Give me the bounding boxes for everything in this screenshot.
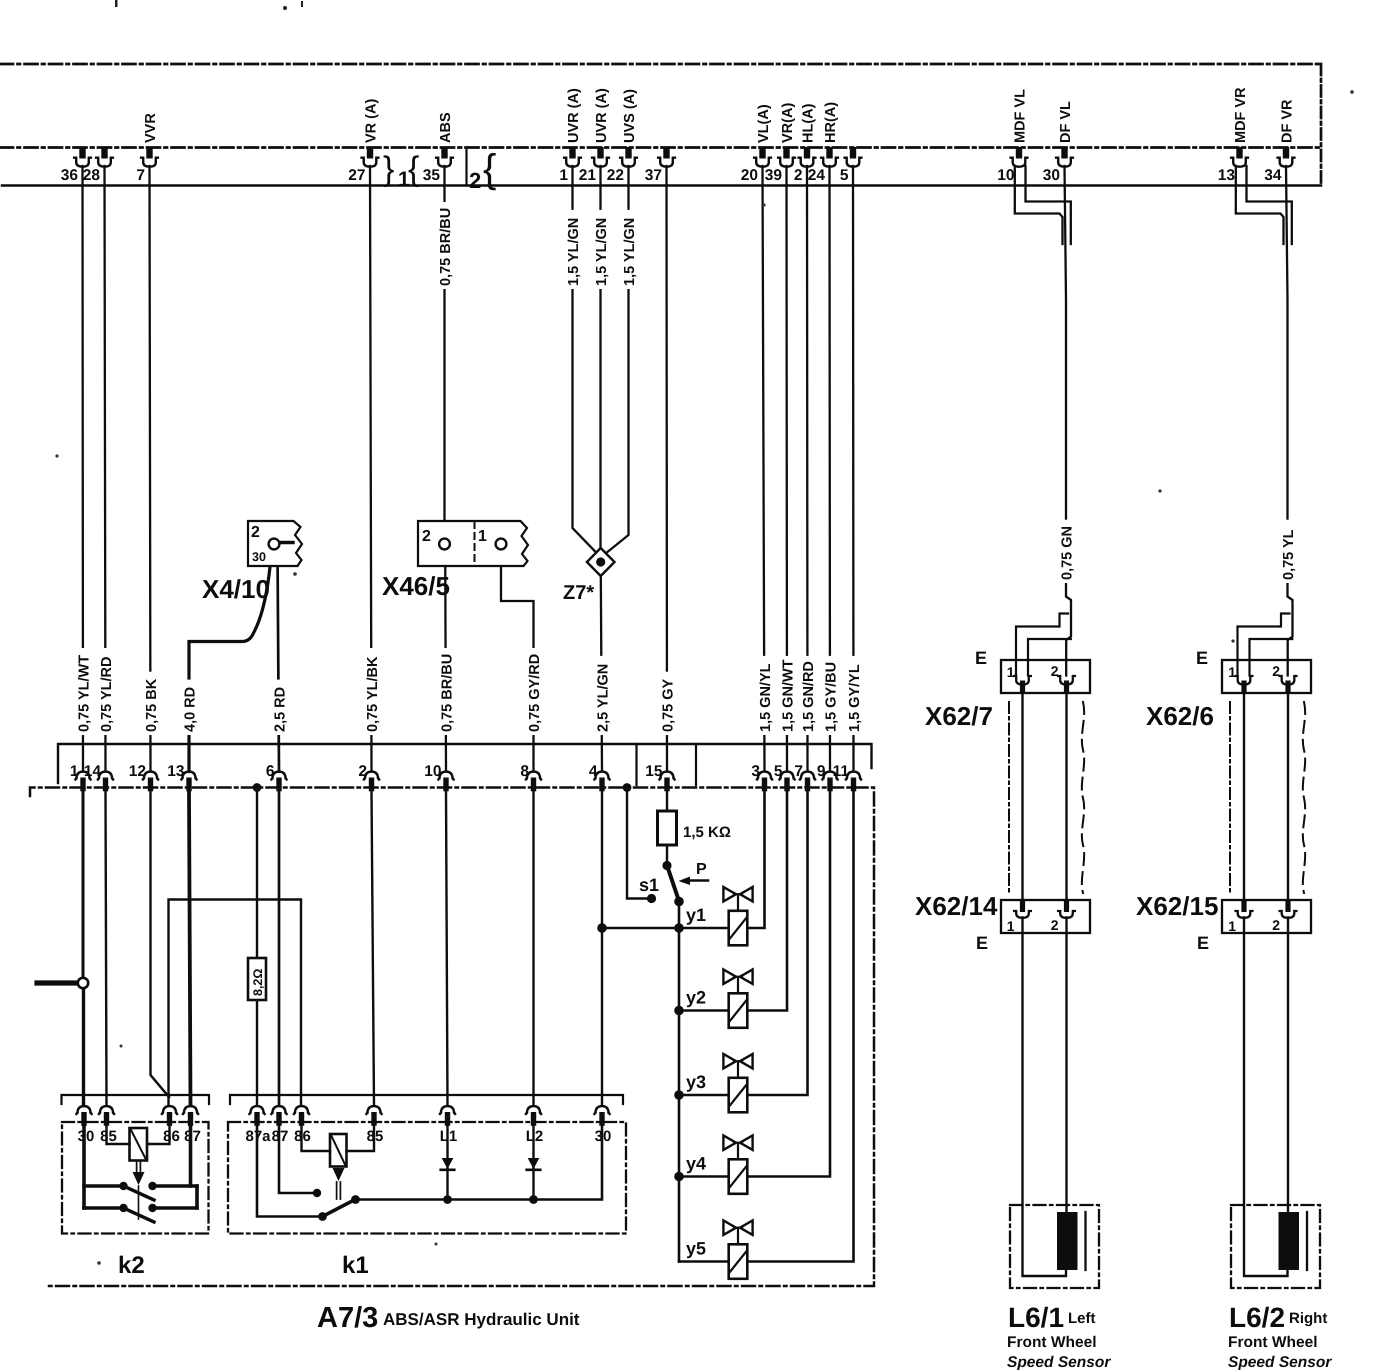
terminal label DF VR xyxy=(1279,99,1295,143)
k2 contact upper right dot xyxy=(148,1182,156,1190)
svg-text:35: 35 xyxy=(423,167,441,184)
k1 pin 87a xyxy=(245,1106,271,1145)
k1 blade pivot dot xyxy=(351,1195,360,1204)
terminal label UVR (A) xyxy=(594,88,610,143)
terminal label UVS (A) xyxy=(622,89,638,143)
svg-text:5: 5 xyxy=(840,167,849,184)
wire X4/10 pin30 to pin6 2,5 RD xyxy=(278,550,280,772)
pin 35 (unit A connector) xyxy=(423,147,453,184)
svg-text:UVR (A): UVR (A) xyxy=(566,88,582,143)
k1 plunger with arrow xyxy=(333,1168,345,1199)
k1 wire 87a xyxy=(257,1126,318,1217)
k2 contact lower blade xyxy=(124,1208,155,1222)
wire label 1,5 YL/GN (upper) xyxy=(565,210,582,289)
svg-text:Front Wheel: Front Wheel xyxy=(1228,1334,1318,1351)
cable sheath dash-dot right xyxy=(1229,702,1231,893)
wire y3 row left xyxy=(679,1094,729,1097)
svg-text:7: 7 xyxy=(136,167,145,184)
wire pin15 to 1,5k resistor xyxy=(666,792,668,812)
svg-text:10: 10 xyxy=(424,763,441,780)
k2 coil wire 85 xyxy=(107,1126,130,1144)
wire y4 row left xyxy=(679,1175,729,1178)
pin 3 (A7/3) xyxy=(751,763,772,791)
svg-text:2: 2 xyxy=(469,168,481,193)
pin 39 (unit A connector) xyxy=(765,147,795,184)
wire label 0,75 BR/BU (upper) xyxy=(437,202,454,289)
X62/6 shield stub wires into pin 1 xyxy=(1238,614,1293,676)
junction dot valve row y4 xyxy=(674,1172,684,1182)
svg-text:s1: s1 xyxy=(639,875,659,895)
k2 contact lower right bar xyxy=(153,1206,198,1210)
switch s1 junction dot xyxy=(662,861,671,870)
pin 34 (unit A connector) xyxy=(1264,147,1294,184)
wire s1 feed xyxy=(627,792,648,899)
scan speck xyxy=(283,6,287,10)
control unit A connector row line (dash-dot) xyxy=(0,146,1321,149)
wire pin4 to k1:30 xyxy=(601,792,603,1106)
svg-text:2: 2 xyxy=(1051,917,1059,933)
k1 pin 86 xyxy=(294,1106,311,1145)
svg-text:{: { xyxy=(408,150,419,188)
junction dot valve row y1 xyxy=(674,923,684,933)
svg-text:y5: y5 xyxy=(686,1239,706,1259)
cable sheath wavy left xyxy=(1082,702,1084,893)
k1 coil xyxy=(330,1134,347,1167)
k1 L1 wire xyxy=(446,1126,448,1200)
svg-text:10: 10 xyxy=(997,167,1014,184)
svg-text:1: 1 xyxy=(1007,664,1015,680)
X62/14 pin 1 xyxy=(1007,900,1031,935)
scan speck xyxy=(55,454,58,457)
svg-text:4,0 RD: 4,0 RD xyxy=(182,687,198,732)
valve rail vertical xyxy=(678,928,681,1262)
terminal label VL(A) xyxy=(756,104,772,143)
svg-text:1,5 YL/GN: 1,5 YL/GN xyxy=(622,218,638,286)
k2 contact upper left bar xyxy=(84,1184,122,1188)
terminal label VR (A) xyxy=(363,99,379,143)
wire y1 row left xyxy=(602,927,729,930)
scan speck xyxy=(762,203,765,206)
pin 5 (unit A connector) xyxy=(840,147,862,184)
control unit A right edge (dash-dot) xyxy=(1320,64,1323,186)
wire y5 row left xyxy=(679,1260,729,1263)
svg-text:}: } xyxy=(383,150,394,188)
wire X4/10 pin30 to pin13 4,0 RD (curved) xyxy=(189,550,272,772)
svg-text:86: 86 xyxy=(163,1128,180,1145)
wire label 4,0 RD xyxy=(182,680,199,735)
k2 contact lower left bar xyxy=(84,1206,122,1210)
pin 2 (unit A connector) xyxy=(794,147,816,184)
switch s1 blade lower dot xyxy=(674,897,684,907)
pin 2 (A7/3) xyxy=(358,763,379,791)
terminal label ABS xyxy=(438,112,454,143)
wire label 0,75 GY/RD xyxy=(526,648,543,735)
svg-text:E: E xyxy=(975,648,987,668)
solenoid valve y1 xyxy=(723,887,752,945)
svg-text:12: 12 xyxy=(129,763,146,780)
junction dot valve row y2 xyxy=(674,1006,684,1016)
junction on A7/3 edge for s1 branch xyxy=(623,783,632,792)
svg-text:ABS/ASR Hydraulic Unit: ABS/ASR Hydraulic Unit xyxy=(383,1310,580,1329)
k2 pin 86 xyxy=(162,1106,180,1145)
k2 coil wire 86 xyxy=(147,1126,170,1144)
svg-text:0,75 YL/WT: 0,75 YL/WT xyxy=(76,655,92,732)
wire label 1,5 GY/BU xyxy=(823,656,840,735)
pin 6 (A7/3) xyxy=(266,763,287,791)
pin 22 (unit A connector) xyxy=(607,147,637,184)
cable sheath dash-dot left xyxy=(1008,702,1010,893)
pin 9 (A7/3) xyxy=(817,763,838,791)
pin 36 (unit A connector) xyxy=(61,147,91,184)
X62/15 pin 1 xyxy=(1228,900,1252,935)
svg-text:1: 1 xyxy=(70,763,79,780)
svg-text:E: E xyxy=(1197,933,1209,953)
svg-text:E: E xyxy=(1196,648,1208,668)
pin 20 (unit A connector) xyxy=(741,147,771,184)
svg-text:2,5 RD: 2,5 RD xyxy=(272,687,288,732)
svg-text:1,5 YL/GN: 1,5 YL/GN xyxy=(566,218,582,286)
connector X62/7 box xyxy=(1001,660,1090,693)
wire Z7 to pin4 2,5 YL/GN xyxy=(601,576,602,772)
sensor L6/1 pole line xyxy=(1084,1212,1086,1270)
svg-text:7: 7 xyxy=(794,763,803,780)
terminal label DF VL xyxy=(1058,101,1074,143)
svg-text:y2: y2 xyxy=(686,988,706,1008)
svg-text:X62/6: X62/6 xyxy=(1146,701,1214,731)
svg-text:39: 39 xyxy=(765,167,783,184)
svg-text:0,75 YL/BK: 0,75 YL/BK xyxy=(365,656,381,732)
switch s1 blade xyxy=(667,866,679,902)
pin 13 (unit A connector) xyxy=(1218,147,1248,184)
A7/3 unit box (dash-dot) xyxy=(30,788,874,1287)
svg-text:k1: k1 xyxy=(342,1252,369,1279)
scan speck xyxy=(1231,639,1234,642)
svg-text:UVS (A): UVS (A) xyxy=(622,89,638,143)
k1 L2 wire xyxy=(532,1126,534,1200)
pin 8 (A7/3) xyxy=(520,763,541,791)
wire label 0,75 YL xyxy=(1280,520,1297,583)
solder joint Z7 diamond xyxy=(587,548,615,576)
wire label 0,75 YL/WT xyxy=(76,648,93,735)
svg-text:28: 28 xyxy=(83,167,101,184)
svg-text:1,5 GN/RD: 1,5 GN/RD xyxy=(801,661,817,732)
svg-text:X62/15: X62/15 xyxy=(1136,891,1218,921)
wire pin8 to k1:L2 xyxy=(532,792,534,1106)
svg-text:0,75 YL/RD: 0,75 YL/RD xyxy=(99,657,115,733)
wire 8,2 ohm to k1:87a xyxy=(256,1000,258,1106)
svg-text:y3: y3 xyxy=(686,1072,706,1092)
k1 pin L1 xyxy=(440,1106,458,1145)
k1 rail dot L2 xyxy=(529,1195,538,1204)
svg-text:2: 2 xyxy=(251,524,260,541)
terminal label MDF VL xyxy=(1012,89,1028,143)
wire 1,5k resistor to s1 xyxy=(666,845,668,862)
scan speck xyxy=(1350,90,1354,94)
svg-text:Left: Left xyxy=(1068,1310,1096,1327)
svg-text:30: 30 xyxy=(78,1128,95,1145)
svg-text:22: 22 xyxy=(607,167,624,184)
k1 coil wire 86 xyxy=(302,1126,331,1151)
k2 heavy wire 30 xyxy=(82,1126,86,1208)
svg-text:1: 1 xyxy=(478,528,487,545)
svg-text:X4/10: X4/10 xyxy=(202,574,270,604)
terminal label VVR xyxy=(143,113,159,143)
X4/10 terminal stub xyxy=(280,541,293,544)
svg-text:DF VR: DF VR xyxy=(1279,99,1295,143)
svg-text:20: 20 xyxy=(741,167,758,184)
svg-text:A7/3: A7/3 xyxy=(317,1302,378,1334)
scan speck xyxy=(435,1243,438,1246)
k1 pin 30 xyxy=(594,1106,611,1145)
svg-text:87: 87 xyxy=(184,1128,201,1145)
wire label 0,75 BK xyxy=(143,672,160,735)
svg-text:2: 2 xyxy=(1272,663,1280,679)
terminal label VR(A) xyxy=(780,103,796,143)
X62/6 pin 1 xyxy=(1228,664,1252,693)
svg-text:15: 15 xyxy=(645,763,663,780)
k2 pin 85 xyxy=(99,1106,117,1145)
svg-text:E: E xyxy=(976,933,988,953)
X46/5 divider xyxy=(474,522,476,565)
sensor cable wires X62/6 to X62/15 xyxy=(1244,693,1288,900)
DF VR wire 0,75 YL xyxy=(1286,166,1293,676)
X62/15 pin 2 xyxy=(1272,900,1296,934)
pin 13 (A7/3) xyxy=(167,763,196,791)
k1 wire 87 contact xyxy=(279,1126,313,1193)
open junction circle on pin1 wire xyxy=(78,978,88,988)
svg-text:5: 5 xyxy=(774,763,783,780)
k1 pin 87 xyxy=(271,1106,288,1145)
pin 28 (unit A connector) xyxy=(83,147,113,184)
wire k2:86 to k1:86 link xyxy=(169,900,302,1106)
pin 24 (unit A connector) xyxy=(808,147,838,184)
svg-text:34: 34 xyxy=(1264,167,1282,184)
pin 10 (unit A connector) xyxy=(997,147,1027,184)
k2 plunger with arrow xyxy=(133,1161,145,1220)
sensor L6/2 coil core (filled) xyxy=(1279,1212,1300,1270)
solenoid valve y5 xyxy=(723,1221,752,1279)
wire pin1 to k2:30 lower xyxy=(82,989,85,1106)
svg-text:0,75 BR/BU: 0,75 BR/BU xyxy=(438,208,454,286)
svg-text:37: 37 xyxy=(645,167,662,184)
connector X46/5 body xyxy=(418,521,528,566)
k1 common rail xyxy=(356,1126,603,1200)
svg-text:y4: y4 xyxy=(686,1154,706,1174)
pin 14 (A7/3) xyxy=(84,763,113,791)
wire label 0,75 YL/RD xyxy=(98,648,115,735)
svg-text:1: 1 xyxy=(1007,918,1015,934)
terminal label MDF VR xyxy=(1233,87,1249,143)
wire pin12 to k2:86 xyxy=(151,792,170,1098)
wire y5 row right to bus xyxy=(747,792,853,1262)
svg-text:24: 24 xyxy=(808,167,826,184)
wire 39-5 1,5 GN/WT xyxy=(785,166,788,772)
MDF VR shield wire pair from pin 13 xyxy=(1236,166,1292,244)
svg-text:1: 1 xyxy=(1228,918,1236,934)
svg-text:2: 2 xyxy=(1272,917,1280,933)
k1 pin 85 xyxy=(366,1106,383,1145)
sensor L6/2 box (dash-dot) xyxy=(1231,1205,1320,1288)
svg-text:13: 13 xyxy=(1218,167,1236,184)
pin 27 (unit A connector) xyxy=(348,147,378,184)
svg-text:2: 2 xyxy=(794,167,803,184)
svg-text:87a: 87a xyxy=(245,1128,271,1145)
wire y4 row right to bus xyxy=(747,792,830,1177)
wire 22 to Z7 1,5 YL/GN xyxy=(601,166,628,557)
sensor L6/1 box (dash-dot) xyxy=(1010,1205,1099,1288)
pin 10 (A7/3) xyxy=(424,763,453,791)
scan speck xyxy=(1158,489,1161,492)
wire pin10 to k1:L1 xyxy=(446,792,448,1106)
wire 27-2 0,75 YL/BK xyxy=(370,166,372,772)
solenoid valve y3 xyxy=(723,1054,752,1112)
svg-text:UVR (A): UVR (A) xyxy=(594,88,610,143)
X62/7 pin 1 xyxy=(1007,664,1031,693)
svg-text:Speed Sensor: Speed Sensor xyxy=(1228,1354,1332,1370)
svg-text:DF VL: DF VL xyxy=(1058,101,1074,143)
svg-text:1,5 YL/GN: 1,5 YL/GN xyxy=(594,218,610,286)
svg-text:Right: Right xyxy=(1289,1310,1327,1327)
wire y1 row right to bus xyxy=(747,792,764,929)
svg-text:VR(A): VR(A) xyxy=(780,103,796,143)
junction dot pin4 wire / y1 row xyxy=(597,923,607,933)
k2 contact upper blade xyxy=(124,1186,155,1200)
resistor 1,5 kOhm xyxy=(658,811,677,845)
DF VL wire 0,75 GN xyxy=(1065,166,1072,676)
svg-text:L6/1: L6/1 xyxy=(1008,1302,1064,1333)
X62/14 pin 2 xyxy=(1051,900,1075,934)
svg-text:1: 1 xyxy=(1228,664,1236,680)
svg-text:30: 30 xyxy=(1043,167,1060,184)
wire 20-3 1,5 GN/YL xyxy=(763,166,765,772)
svg-text:VL(A): VL(A) xyxy=(756,104,772,143)
X46/5 terminal circle 2 xyxy=(439,539,450,550)
wire label 0,75 BR/BU xyxy=(439,648,456,735)
svg-text:3: 3 xyxy=(751,763,760,780)
svg-text:VVR: VVR xyxy=(143,113,159,143)
wire pin2 to k1:85 xyxy=(372,792,375,1106)
k2 contact lower right dot xyxy=(148,1204,156,1212)
wire 5-11 1,5 GY/YL xyxy=(852,166,855,772)
wire 37-15 0,75 GY xyxy=(665,166,668,772)
pin 5 (A7/3) xyxy=(774,763,795,791)
wire pin13 to k2:87 4,0 RD xyxy=(189,792,191,1106)
svg-text:VR (A): VR (A) xyxy=(363,99,379,143)
svg-text:k2: k2 xyxy=(118,1252,145,1279)
terminal label UVR (A) xyxy=(566,88,582,143)
scan speck xyxy=(97,1261,101,1265)
svg-text:1,5 GN/YL: 1,5 GN/YL xyxy=(758,663,774,732)
k2 pin 87 xyxy=(183,1106,201,1145)
svg-text:0,75 GY: 0,75 GY xyxy=(660,678,676,732)
svg-text:MDF VR: MDF VR xyxy=(1233,87,1249,143)
wire label 1,5 GN/YL xyxy=(757,656,774,735)
svg-text:11: 11 xyxy=(833,763,850,780)
connector X4/10 body xyxy=(248,521,302,566)
diode L2 xyxy=(527,1158,541,1170)
wire 2-7 1,5 GN/RD xyxy=(806,166,809,772)
sensor cable wires X62/7 to X62/14 xyxy=(1023,693,1067,900)
svg-text:2,5 YL/GN: 2,5 YL/GN xyxy=(595,664,611,732)
svg-text:1,5 GY/BU: 1,5 GY/BU xyxy=(823,662,839,732)
sensor L6/1 coil core (filled) xyxy=(1057,1212,1078,1270)
wire 24-9 1,5 GY/BU xyxy=(828,166,831,772)
X62/7 shield stub wires into pin 1 xyxy=(1016,614,1071,676)
wire label 2,5 YL/GN xyxy=(595,656,612,735)
pin 7 (unit A connector) xyxy=(136,147,158,184)
P arrow xyxy=(679,877,709,886)
sensor lead wires X62/14 to L6/1 xyxy=(1023,918,1067,1277)
A7/3 connector bracket line xyxy=(58,744,872,783)
wire label 0,75 GN xyxy=(1059,520,1076,583)
k1 pin L2 xyxy=(526,1106,544,1145)
X62/7 pin 2 xyxy=(1051,663,1075,693)
wire pin14 to k2:85 xyxy=(106,792,107,1106)
svg-text:X46/5: X46/5 xyxy=(382,571,450,601)
svg-text:X62/14: X62/14 xyxy=(915,891,998,921)
pin 21 (unit A connector) xyxy=(579,147,609,184)
pin 37 (unit A connector) xyxy=(645,147,675,184)
junction on A7/3 edge for 8,2 ohm branch xyxy=(253,783,262,792)
k2 coil xyxy=(130,1128,148,1161)
svg-text:1: 1 xyxy=(559,167,568,184)
svg-text:2: 2 xyxy=(358,763,367,780)
wire label 1,5 GY/YL xyxy=(846,656,863,735)
svg-text:14: 14 xyxy=(84,763,102,780)
svg-text:4: 4 xyxy=(589,763,598,780)
k2 bracket line xyxy=(62,1095,210,1104)
svg-text:9: 9 xyxy=(817,763,826,780)
wire label 0,75 YL/BK xyxy=(364,648,381,735)
wire label 0,75 GY xyxy=(660,672,677,735)
resistor 8,2 ohm xyxy=(248,958,266,1000)
svg-text:X62/7: X62/7 xyxy=(925,701,993,731)
svg-text:2: 2 xyxy=(1051,663,1059,679)
X62/6 pin 2 xyxy=(1272,663,1296,693)
wire pin1 to k2:30 xyxy=(82,792,85,978)
svg-text:1,5 KΩ: 1,5 KΩ xyxy=(683,824,731,841)
wire label 1,5 YL/GN (upper) xyxy=(593,210,610,289)
connector X62/6 box xyxy=(1222,660,1311,693)
wire X46/5 pin2 to pin10 0,75 BR/BU xyxy=(444,550,447,772)
scan speck xyxy=(115,0,118,7)
terminal label HL(A) xyxy=(800,103,816,143)
svg-text:y1: y1 xyxy=(686,905,706,925)
k1 87 contact dot xyxy=(313,1189,321,1197)
wire label 1,5 GN/WT xyxy=(780,656,797,735)
svg-text:L6/2: L6/2 xyxy=(1229,1302,1285,1333)
wire 21 to Z7 1,5 YL/GN xyxy=(599,166,601,549)
solenoid valve y2 xyxy=(723,970,752,1028)
svg-text:6: 6 xyxy=(266,763,275,780)
connector X62/14 box xyxy=(1001,900,1090,933)
pin 7 (A7/3) xyxy=(794,763,815,791)
wire label 1,5 YL/GN (upper) xyxy=(621,210,638,289)
svg-text:MDF VL: MDF VL xyxy=(1012,89,1028,143)
svg-text:0,75 BR/BU: 0,75 BR/BU xyxy=(439,654,455,732)
k2 pin 30 xyxy=(76,1106,94,1145)
X4/10 terminal circle xyxy=(269,539,280,550)
svg-text:0,75 BK: 0,75 BK xyxy=(144,678,160,732)
svg-text:0,75 GY/RD: 0,75 GY/RD xyxy=(527,654,543,732)
svg-text:Speed Sensor: Speed Sensor xyxy=(1007,1354,1111,1370)
pin 15 (A7/3) xyxy=(645,763,674,791)
svg-text:P: P xyxy=(696,861,707,878)
k1 box (dash-dot) xyxy=(228,1122,626,1234)
svg-text:ABS: ABS xyxy=(438,112,454,143)
wire y2 row left xyxy=(679,1009,729,1012)
svg-text:36: 36 xyxy=(61,167,79,184)
